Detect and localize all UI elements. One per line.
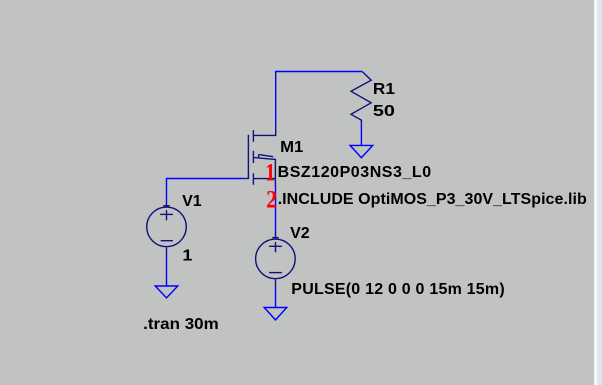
svg-text:PULSE(0 12 0 0 0 15m 15m): PULSE(0 12 0 0 0 15m 15m) — [291, 281, 505, 298]
svg-text:.INCLUDE OptiMOS_P3_30V_LTSpic: .INCLUDE OptiMOS_P3_30V_LTSpice.lib — [278, 191, 587, 208]
resistor R1 — [351, 72, 371, 124]
wire: V2 bottom vertical — [275, 285, 277, 307]
ground under V1 — [155, 286, 178, 298]
wire: top horizontal from drain to R1 — [276, 71, 363, 73]
svg-text:V2: V2 — [290, 225, 310, 242]
ground under R1 — [350, 145, 373, 157]
svg-text:.tran 30m: .tran 30m — [143, 316, 218, 333]
voltage source V1 — [147, 201, 187, 253]
svg-text:50: 50 — [373, 103, 395, 120]
svg-text:V1: V1 — [182, 193, 202, 210]
svg-text:R1: R1 — [373, 81, 395, 98]
svg-text:2: 2 — [266, 186, 277, 213]
wire: source to V2 vertical — [275, 187, 277, 234]
svg-text:1: 1 — [265, 159, 275, 187]
mosfet M1 (PMOS) — [243, 125, 276, 187]
ground under V2 — [264, 308, 287, 320]
wire: gate horizontal to V1 — [167, 178, 243, 180]
voltage source V2 — [256, 233, 296, 286]
svg-text:1: 1 — [182, 247, 192, 264]
svg-text:M1: M1 — [280, 139, 303, 156]
window edge light blue strip — [599, 0, 602, 385]
svg-text:BSZ120P03NS3_L0: BSZ120P03NS3_L0 — [278, 164, 432, 181]
wire: V1 bottom vertical — [166, 253, 168, 286]
wire: drain vertical — [275, 71, 277, 125]
wire: V1 top vertical — [166, 178, 168, 202]
wire: R1 bottom vertical — [360, 123, 362, 145]
window edge white strip — [594, 0, 600, 385]
